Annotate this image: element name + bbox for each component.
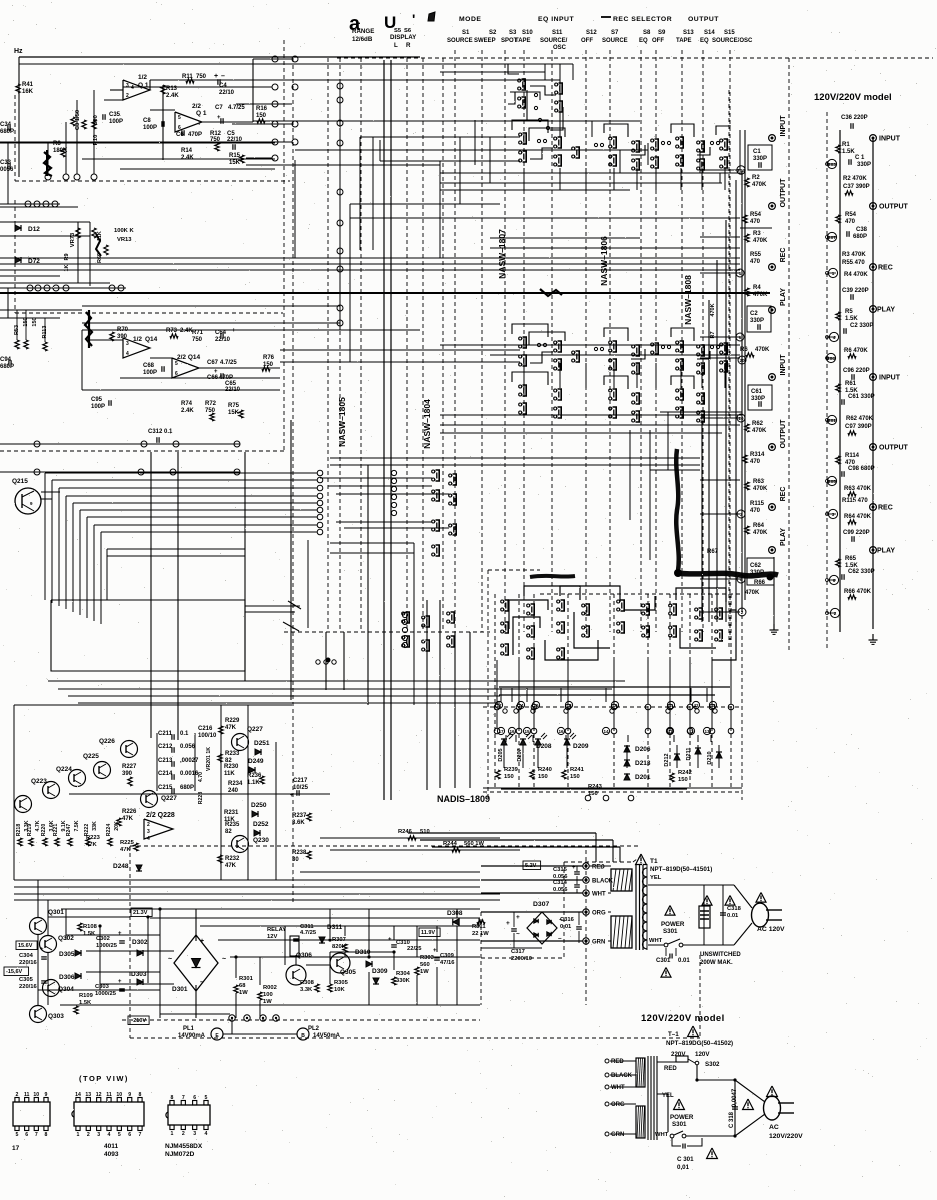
svg-text:6: 6	[740, 577, 743, 582]
svg-text:S14: S14	[704, 30, 715, 36]
svg-text:150: 150	[32, 317, 38, 326]
svg-text:OUTPUT: OUTPUT	[879, 204, 909, 211]
svg-text:R6: R6	[740, 347, 748, 353]
svg-text:R305: R305	[334, 980, 349, 986]
svg-text:15.6V: 15.6V	[18, 943, 33, 949]
svg-text:2: 2	[87, 1132, 90, 1138]
svg-text:S2: S2	[489, 30, 497, 36]
svg-text:330P: 330P	[857, 162, 871, 168]
svg-text:D201: D201	[635, 774, 651, 781]
svg-text:C212: C212	[158, 744, 173, 750]
svg-text:1.1K: 1.1K	[247, 780, 260, 786]
svg-text:R4 470K: R4 470K	[844, 272, 868, 278]
svg-text:220/16: 220/16	[19, 984, 38, 990]
svg-text:C98 680P: C98 680P	[848, 466, 875, 472]
svg-text:TAPE: TAPE	[676, 38, 692, 44]
svg-text:BLACK: BLACK	[592, 879, 614, 885]
svg-text:9: 9	[128, 1092, 131, 1098]
svg-text:C62 330P: C62 330P	[848, 569, 875, 575]
svg-text:RED: RED	[592, 865, 605, 871]
svg-text:BLACK: BLACK	[611, 1073, 633, 1079]
svg-text:R221: R221	[53, 824, 59, 837]
svg-text:12/6dB: 12/6dB	[352, 36, 373, 43]
svg-text:6: 6	[175, 371, 178, 377]
svg-text:47K: 47K	[225, 863, 237, 869]
svg-text:S3: S3	[509, 30, 517, 36]
svg-text:+: +	[40, 947, 44, 953]
svg-text:C8: C8	[143, 118, 151, 124]
svg-text:4011: 4011	[104, 1143, 118, 1150]
svg-text:NASW–1805: NASW–1805	[337, 397, 347, 447]
svg-text:YEL: YEL	[650, 875, 662, 881]
svg-text:SOURCE/: SOURCE/	[540, 38, 568, 44]
svg-text:6: 6	[25, 1132, 28, 1138]
svg-text:R233: R233	[225, 751, 240, 757]
svg-text:0,0047: 0,0047	[732, 1088, 738, 1107]
svg-text:EQ: EQ	[639, 38, 648, 44]
svg-text:D307: D307	[533, 901, 549, 908]
svg-text:S8: S8	[643, 30, 651, 36]
svg-text:7: 7	[35, 1132, 38, 1138]
svg-text:3: 3	[740, 512, 743, 517]
svg-text:Q 1: Q 1	[138, 82, 149, 89]
svg-text:470K: 470K	[752, 428, 767, 434]
svg-text:WHT: WHT	[655, 1132, 669, 1138]
svg-text:14V90mA: 14V90mA	[178, 1033, 206, 1039]
svg-text:100/10: 100/10	[198, 733, 217, 739]
svg-text:120V: 120V	[695, 1051, 710, 1058]
svg-text:-15,6V: -15,6V	[6, 969, 23, 975]
svg-text:4.7/25: 4.7/25	[220, 360, 237, 366]
svg-text:4.70: 4.70	[198, 772, 204, 782]
svg-text:RANGE: RANGE	[352, 28, 374, 35]
svg-text:D206: D206	[635, 746, 651, 753]
svg-text:+: +	[118, 931, 122, 937]
svg-text:200W MAK.: 200W MAK.	[700, 960, 733, 966]
svg-text:C2 330P: C2 330P	[850, 323, 873, 329]
svg-text:L: L	[394, 42, 398, 49]
svg-text:C3 1/50: C3 1/50	[75, 110, 81, 130]
svg-text:D211: D211	[686, 748, 692, 761]
svg-text:4.7/25: 4.7/25	[228, 105, 245, 111]
svg-text:–: –	[221, 73, 225, 80]
svg-text:NADIS–1809: NADIS–1809	[437, 794, 490, 804]
svg-text:RED: RED	[611, 1059, 624, 1065]
svg-text:R224: R224	[106, 824, 112, 837]
svg-text:5: 5	[205, 1095, 208, 1101]
svg-text:EQ INPUT: EQ INPUT	[538, 16, 574, 23]
svg-text:R244: R244	[443, 841, 458, 847]
svg-text:REC: REC	[780, 248, 787, 263]
svg-text:R2 470K: R2 470K	[843, 176, 867, 182]
svg-text:C7: C7	[215, 105, 223, 111]
svg-text:4: 4	[131, 85, 134, 91]
svg-text:470K: 470K	[753, 238, 768, 244]
svg-text:120V/220V model: 120V/220V model	[641, 1013, 725, 1024]
svg-text:C6: C6	[176, 132, 184, 138]
svg-text:1000/25: 1000/25	[96, 943, 118, 949]
svg-text:+: +	[506, 920, 510, 927]
svg-text:6: 6	[128, 1132, 131, 1138]
svg-text:R314: R314	[750, 452, 765, 458]
svg-text:R234: R234	[228, 781, 243, 787]
svg-text:22/10: 22/10	[219, 90, 235, 96]
svg-text:R002: R002	[263, 985, 277, 991]
svg-text:14: 14	[518, 703, 524, 708]
svg-text:SWEEP: SWEEP	[474, 38, 496, 44]
svg-text:R231: R231	[224, 810, 239, 816]
svg-text:470: 470	[750, 508, 761, 514]
svg-text:13: 13	[85, 1092, 91, 1098]
svg-text:D308: D308	[447, 910, 463, 917]
svg-text:Q303: Q303	[48, 1013, 64, 1020]
svg-text:REC SELECTOR: REC SELECTOR	[613, 16, 672, 23]
svg-text:12: 12	[96, 1092, 102, 1098]
svg-text:11: 11	[106, 1092, 112, 1098]
svg-text:560 1W: 560 1W	[464, 841, 485, 847]
svg-text:OFF: OFF	[652, 38, 664, 44]
svg-text:R225: R225	[120, 840, 135, 846]
svg-text:330P: 330P	[753, 156, 767, 162]
svg-text:680P: 680P	[0, 129, 14, 135]
svg-text:R223: R223	[86, 835, 101, 841]
svg-text:NJM4558DX: NJM4558DX	[165, 1143, 203, 1150]
svg-text:D213: D213	[635, 760, 651, 767]
svg-text:150: 150	[678, 777, 688, 783]
svg-text:D248: D248	[113, 863, 129, 870]
svg-text:68: 68	[239, 983, 246, 989]
svg-text:–: –	[200, 979, 204, 986]
svg-text:330K: 330K	[396, 978, 411, 984]
svg-text:R241: R241	[570, 767, 585, 773]
svg-text:D250: D250	[251, 802, 267, 809]
svg-text:3: 3	[126, 341, 129, 347]
svg-text:D251: D251	[254, 740, 270, 747]
svg-text:D252: D252	[253, 821, 269, 828]
svg-text:2.4K: 2.4K	[181, 408, 194, 414]
svg-text:WHT: WHT	[649, 938, 663, 944]
svg-text:R66 470K: R66 470K	[844, 589, 872, 595]
svg-text:0.0016: 0.0016	[180, 771, 199, 777]
svg-text:INPUT: INPUT	[879, 136, 901, 143]
svg-text:1000/25: 1000/25	[95, 991, 117, 997]
svg-text:C68: C68	[143, 363, 155, 369]
svg-text:150: 150	[504, 774, 514, 780]
svg-text:43: 43	[688, 729, 694, 734]
svg-text:2: 2	[126, 93, 129, 99]
svg-text:10/25: 10/25	[293, 785, 309, 791]
svg-text:0.01: 0.01	[560, 924, 572, 930]
svg-text:D207: D207	[517, 748, 523, 761]
svg-text:VR73: VR73	[70, 232, 76, 247]
svg-text:0.01: 0.01	[727, 913, 739, 919]
svg-text:R218: R218	[16, 824, 22, 837]
svg-text:470: 470	[750, 219, 761, 225]
svg-text:2/2: 2/2	[192, 103, 201, 110]
svg-text:RED: RED	[664, 1066, 677, 1072]
svg-text:AC 120V: AC 120V	[757, 926, 785, 933]
svg-text:8: 8	[139, 1092, 142, 1098]
svg-text:S301: S301	[672, 1121, 687, 1128]
svg-text:2.4K: 2.4K	[166, 93, 179, 99]
svg-text:R239: R239	[504, 767, 519, 773]
svg-text:C314: C314	[553, 880, 568, 886]
svg-text:S1: S1	[462, 30, 470, 36]
svg-text:C61 330P: C61 330P	[848, 394, 875, 400]
svg-text:1/2: 1/2	[138, 74, 147, 81]
svg-text:100P: 100P	[91, 404, 105, 410]
svg-text:R14: R14	[181, 148, 193, 154]
svg-text:C 1: C 1	[855, 155, 865, 161]
svg-text:220/16: 220/16	[19, 960, 38, 966]
svg-text:0,01: 0,01	[677, 1164, 690, 1171]
svg-text:15K: 15K	[228, 410, 240, 416]
svg-text:1W: 1W	[420, 969, 429, 975]
svg-text:470K: 470K	[753, 292, 768, 298]
svg-text:33K: 33K	[92, 821, 98, 831]
svg-text:22 1W: 22 1W	[472, 931, 489, 937]
svg-text:8: 8	[45, 1132, 48, 1138]
svg-text:R115 470: R115 470	[842, 498, 868, 504]
svg-text:100K K: 100K K	[114, 228, 134, 234]
svg-text:OUTPUT: OUTPUT	[879, 445, 909, 452]
svg-text:12V: 12V	[267, 934, 277, 940]
svg-text:470: 470	[750, 259, 761, 265]
svg-text:2200/10: 2200/10	[511, 956, 532, 962]
svg-text:510: 510	[420, 829, 430, 835]
svg-text:R304: R304	[396, 971, 411, 977]
svg-text:C 301: C 301	[677, 1156, 694, 1163]
svg-text:16: 16	[612, 703, 618, 708]
svg-text:S302: S302	[705, 1061, 720, 1068]
svg-text:5: 5	[178, 115, 181, 121]
svg-text:~: ~	[516, 931, 520, 938]
svg-text:100P: 100P	[109, 119, 123, 125]
svg-text:17: 17	[496, 703, 502, 708]
svg-text:R76: R76	[263, 355, 275, 361]
svg-text:5: 5	[118, 1132, 121, 1138]
svg-text:C96 220P: C96 220P	[843, 368, 870, 374]
svg-text:Q215: Q215	[12, 478, 28, 485]
svg-text:R235: R235	[225, 822, 240, 828]
svg-text:+: +	[214, 73, 218, 80]
svg-text:D249: D249	[248, 758, 264, 765]
svg-text:D305: D305	[59, 951, 75, 958]
svg-text:1: 1	[77, 1132, 80, 1138]
svg-text:–: –	[558, 935, 562, 942]
svg-text:MODE: MODE	[459, 16, 481, 23]
svg-text:4: 4	[108, 1132, 111, 1138]
svg-text:+: +	[516, 914, 520, 921]
svg-text:750: 750	[196, 74, 207, 80]
svg-text:C215: C215	[158, 785, 173, 791]
svg-text:R246: R246	[398, 829, 413, 835]
svg-text:R227: R227	[122, 764, 137, 770]
svg-text:470K: 470K	[710, 303, 716, 316]
svg-text:1W: 1W	[263, 999, 272, 1005]
svg-text:S9: S9	[658, 30, 666, 36]
svg-text:UNSWITCHED: UNSWITCHED	[700, 952, 741, 958]
svg-text:D212: D212	[664, 753, 670, 766]
svg-text:R75: R75	[228, 403, 240, 409]
svg-text:OSC: OSC	[553, 45, 567, 51]
svg-text:C312 0.1: C312 0.1	[148, 429, 173, 435]
svg-text:4: 4	[147, 836, 150, 842]
svg-text:1W: 1W	[239, 990, 248, 996]
svg-text:+: +	[232, 328, 236, 334]
svg-text:D309: D309	[372, 968, 388, 975]
svg-text:PLAY: PLAY	[780, 288, 787, 306]
svg-text:R303: R303	[420, 955, 435, 961]
svg-text:C309: C309	[440, 953, 455, 959]
svg-text:R3 470K: R3 470K	[842, 252, 866, 258]
svg-text:0.056: 0.056	[553, 887, 568, 893]
svg-text:C211: C211	[158, 731, 173, 737]
svg-text:3.6K: 3.6K	[292, 820, 305, 826]
svg-text:C 318: C 318	[729, 1111, 735, 1128]
svg-text:47/16: 47/16	[440, 960, 455, 966]
svg-text:~: ~	[168, 956, 172, 963]
svg-text:41: 41	[667, 729, 673, 734]
svg-text:0.056: 0.056	[180, 744, 196, 750]
svg-text:OUTPUT: OUTPUT	[780, 419, 787, 449]
svg-text:470: 470	[845, 219, 856, 225]
svg-text:30: 30	[292, 857, 299, 863]
svg-text:T1: T1	[650, 858, 658, 865]
svg-text:R230: R230	[224, 764, 239, 770]
svg-text:REC: REC	[780, 487, 787, 502]
svg-text:R72: R72	[205, 401, 217, 407]
svg-text:330P: 330P	[751, 396, 765, 402]
svg-text:100P: 100P	[143, 125, 157, 131]
svg-text:11.9V: 11.9V	[421, 930, 435, 936]
svg-text:18: 18	[566, 703, 572, 708]
svg-text:NASW–1807: NASW–1807	[497, 229, 507, 279]
svg-text:470K: 470K	[752, 182, 767, 188]
svg-text:16: 16	[509, 729, 515, 734]
svg-text:15: 15	[524, 729, 530, 734]
svg-text:SOURCE: SOURCE	[602, 38, 628, 44]
svg-text:150: 150	[256, 113, 267, 119]
svg-text:680P: 680P	[853, 234, 867, 240]
svg-text:RELAY: RELAY	[267, 927, 286, 933]
svg-text:Q301: Q301	[48, 909, 64, 916]
svg-text:PLAY: PLAY	[877, 548, 895, 555]
svg-text:Hz: Hz	[14, 48, 23, 55]
svg-text:43: 43	[710, 703, 716, 708]
svg-text:S10: S10	[522, 30, 533, 36]
svg-text:16: 16	[558, 729, 564, 734]
svg-text:150: 150	[538, 774, 548, 780]
svg-text:PL1: PL1	[183, 1026, 195, 1032]
svg-text:2: 2	[147, 822, 150, 828]
svg-text:47K: 47K	[120, 847, 131, 853]
svg-text:POWER: POWER	[661, 921, 685, 928]
svg-text:R220: R220	[41, 824, 47, 837]
svg-text:C213: C213	[158, 758, 173, 764]
svg-text:42: 42	[693, 703, 699, 708]
svg-text:.: .	[358, 16, 361, 26]
svg-text:9: 9	[45, 1092, 48, 1098]
svg-text:R15: R15	[229, 153, 241, 159]
svg-text:470K: 470K	[745, 590, 760, 596]
svg-text:100P: 100P	[143, 370, 157, 376]
svg-text:390: 390	[122, 771, 133, 777]
svg-text:NPT–819DG(50–41502): NPT–819DG(50–41502)	[666, 1040, 733, 1047]
svg-text:R41: R41	[22, 82, 34, 88]
svg-text:C38: C38	[856, 227, 868, 233]
svg-text:7: 7	[198, 121, 201, 127]
svg-text:NJM072D: NJM072D	[165, 1151, 195, 1158]
svg-text:11K: 11K	[224, 771, 235, 777]
svg-text:GRN: GRN	[592, 940, 605, 946]
svg-text:OUTPUT: OUTPUT	[780, 178, 787, 208]
svg-text:C2: C2	[750, 311, 758, 317]
svg-text:S11: S11	[552, 30, 563, 36]
svg-text:R63: R63	[753, 479, 765, 485]
svg-text:R115: R115	[750, 501, 765, 507]
svg-text:120V/220V model: 120V/220V model	[814, 92, 892, 103]
svg-text:DISPLAY: DISPLAY	[390, 34, 417, 41]
svg-text:1.5K: 1.5K	[842, 149, 855, 155]
svg-text:R229: R229	[225, 718, 240, 724]
svg-text:R301: R301	[239, 976, 254, 982]
svg-text:D205: D205	[498, 748, 504, 761]
svg-text:20K: 20K	[114, 821, 120, 831]
svg-text:470K: 470K	[753, 486, 768, 492]
svg-text:R6 470K: R6 470K	[844, 348, 868, 354]
svg-text:41: 41	[668, 703, 674, 708]
svg-text:R74: R74	[181, 401, 193, 407]
svg-text:Q226: Q226	[99, 738, 115, 745]
svg-text:21.3V: 21.3V	[133, 910, 148, 916]
svg-text:4: 4	[126, 351, 129, 357]
svg-text:2.4K: 2.4K	[181, 155, 194, 161]
svg-text:14: 14	[75, 1092, 81, 1098]
svg-text:REC: REC	[878, 265, 893, 272]
svg-text:D301: D301	[172, 986, 188, 993]
svg-text:C305: C305	[19, 977, 34, 983]
svg-text:C1: C1	[753, 149, 761, 155]
svg-text:17: 17	[12, 1145, 20, 1152]
svg-text:15K: 15K	[229, 160, 241, 166]
svg-text:INPUT: INPUT	[879, 375, 901, 382]
svg-text:Q227: Q227	[247, 726, 263, 733]
svg-text:R108: R108	[83, 924, 98, 930]
svg-text:R219: R219	[27, 824, 33, 837]
svg-text:750: 750	[205, 408, 216, 414]
svg-text:R232: R232	[225, 856, 240, 862]
svg-text:0056: 0056	[0, 167, 14, 173]
svg-text:10K: 10K	[334, 987, 345, 993]
svg-text:ORG: ORG	[592, 911, 606, 917]
svg-text:82: 82	[225, 829, 232, 835]
svg-text:330P: 330P	[750, 318, 764, 324]
svg-text:470K: 470K	[753, 530, 768, 536]
svg-text:680P: 680P	[0, 364, 14, 370]
svg-text:PLAY: PLAY	[780, 528, 787, 546]
svg-text:2/2 Q14: 2/2 Q14	[177, 354, 201, 361]
svg-text:R54: R54	[750, 212, 762, 218]
svg-text:~210V: ~210V	[130, 1018, 146, 1024]
svg-text:R247: R247	[66, 824, 72, 837]
svg-text:TAPE: TAPE	[515, 38, 531, 44]
svg-text:7: 7	[139, 1132, 142, 1138]
svg-text:Q224: Q224	[56, 766, 72, 773]
svg-text:2: 2	[16, 1092, 19, 1098]
svg-text:3: 3	[97, 1132, 100, 1138]
svg-text:VR201 1K: VR201 1K	[206, 747, 212, 771]
